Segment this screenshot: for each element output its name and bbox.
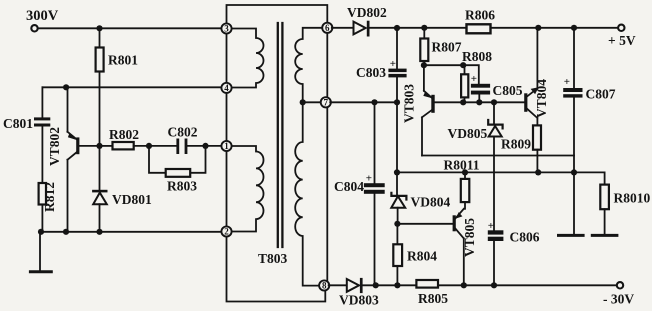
svg-text:+ 5V: + 5V xyxy=(608,33,636,48)
wire VD804 line down from top junction xyxy=(396,102,398,195)
wire C804 top lead xyxy=(374,102,376,183)
winding 3-4 xyxy=(231,29,264,88)
node junction VT802 base / R801 / R802 / VD801 xyxy=(96,143,102,149)
node junction VD805 top on base wire xyxy=(491,99,497,105)
wire R808 top wire xyxy=(424,65,479,84)
wire 300V to transformer pin3 xyxy=(38,27,222,29)
svg-text:R801: R801 xyxy=(108,53,138,68)
node pin 2 xyxy=(221,226,231,236)
svg-text:VD801: VD801 xyxy=(112,192,152,207)
node junction R804 bottom xyxy=(394,282,400,288)
resistor R8010 xyxy=(600,185,609,210)
svg-text:VD802: VD802 xyxy=(347,5,387,20)
transistor VT804 xyxy=(524,28,549,126)
winding 1-2 xyxy=(231,146,264,232)
capacitor C803 xyxy=(388,69,406,73)
node junction R812/ground xyxy=(38,229,44,235)
wire pin8 to VD803 xyxy=(329,284,347,286)
wire C805 bottom lead xyxy=(478,95,480,103)
node junction VD801 bottom xyxy=(96,229,102,235)
transformer core xyxy=(278,23,283,247)
wire -30V rail xyxy=(363,284,617,286)
node junction VT802 emitter xyxy=(63,229,69,235)
capacitor C801 xyxy=(34,117,50,120)
svg-text:R807: R807 xyxy=(432,40,462,55)
wire R812 bottom lead xyxy=(41,205,43,232)
svg-text:1: 1 xyxy=(224,141,229,151)
resistor R802 xyxy=(113,142,134,149)
transistor VT803 xyxy=(402,65,525,155)
node junction C806 bottom xyxy=(491,282,497,288)
wire C803 bottom lead to 7-rail xyxy=(396,77,398,102)
svg-text:+: + xyxy=(488,220,494,232)
ground xyxy=(30,270,51,273)
resistor R803 xyxy=(166,169,191,177)
diode VD801 xyxy=(92,146,152,232)
node pin 8 xyxy=(319,280,329,290)
svg-text:4: 4 xyxy=(224,83,229,93)
node junction C804 bottom xyxy=(373,282,379,288)
node junction R808 top xyxy=(460,62,466,68)
node junction VT802 collector xyxy=(63,84,69,90)
node junction R801 top xyxy=(96,25,102,31)
resistor R812 xyxy=(39,183,46,205)
svg-text:+: + xyxy=(471,73,477,85)
wire bottom-left rail to pin2 xyxy=(40,231,222,233)
resistor R8011 xyxy=(464,172,466,179)
wire R801 top lead xyxy=(99,28,101,47)
svg-text:C801: C801 xyxy=(3,116,33,131)
svg-text:R8011: R8011 xyxy=(444,158,480,173)
svg-text:VD803: VD803 xyxy=(339,293,379,308)
wire VT803 collector horizontal xyxy=(422,155,574,157)
svg-text:VT802: VT802 xyxy=(47,127,62,166)
diode VD803 xyxy=(347,279,359,292)
node pin 6 xyxy=(322,23,332,33)
winding 6-7 xyxy=(295,28,323,103)
wire R801 bottom lead down to base node xyxy=(99,72,101,146)
node -30V output terminal xyxy=(617,282,623,288)
node junction 7-wire end xyxy=(394,99,400,105)
wire C801 bottom lead xyxy=(41,127,43,184)
ground R8010 xyxy=(592,234,617,237)
svg-text:R8010: R8010 xyxy=(614,191,651,206)
wire C803 top lead xyxy=(396,28,398,69)
svg-text:VT803: VT803 xyxy=(402,84,417,123)
resistor R804 xyxy=(393,244,402,266)
wire VD802 to +5V rail xyxy=(370,27,619,29)
svg-text:VT804: VT804 xyxy=(534,79,549,118)
svg-text:- 30V: - 30V xyxy=(603,292,634,307)
svg-text:3: 3 xyxy=(224,24,229,34)
svg-text:+: + xyxy=(564,76,570,88)
svg-text:VD804: VD804 xyxy=(411,195,451,210)
transistor VT802 xyxy=(47,87,100,232)
node junction R803 right xyxy=(202,143,208,149)
svg-text:C803: C803 xyxy=(356,65,386,80)
diode VD804 zener xyxy=(391,193,450,224)
node junction R803 left xyxy=(146,143,152,149)
svg-text:6: 6 xyxy=(325,23,330,33)
svg-text:R803: R803 xyxy=(167,179,197,194)
node pin 1 xyxy=(221,141,231,151)
node junction R807 top xyxy=(421,25,427,31)
resistor R806 xyxy=(467,24,491,33)
wire ground drop xyxy=(39,232,41,271)
wire R802 to C802 xyxy=(134,145,177,147)
capacitor C806 xyxy=(488,230,504,234)
svg-text:300V: 300V xyxy=(26,8,59,24)
node junction R8011 top xyxy=(462,169,468,175)
ground C807 xyxy=(559,234,584,237)
svg-text:8: 8 xyxy=(322,281,327,291)
svg-text:R808: R808 xyxy=(462,49,492,64)
diode VD802 xyxy=(354,22,366,35)
wire R807 bottom to emitter node xyxy=(423,61,425,65)
wire horizontal to pin4 xyxy=(42,86,222,88)
transistor VT805 xyxy=(397,209,477,285)
wire R807 top lead xyxy=(423,28,425,39)
wire C801 top lead xyxy=(41,87,43,117)
svg-text:R802: R802 xyxy=(109,127,139,142)
node junction VT805 base / R804 xyxy=(394,221,400,227)
node junction R807/R808 wire left xyxy=(421,62,427,68)
wire R804 top lead xyxy=(396,224,398,245)
capacitor C805 xyxy=(471,84,490,88)
resistor R807 xyxy=(420,39,428,62)
wire pin6 to VD802 xyxy=(332,27,354,29)
wire R803 branch xyxy=(149,146,206,173)
node pin 4 xyxy=(221,83,231,93)
capacitor C804 xyxy=(364,183,385,187)
svg-text:VD805: VD805 xyxy=(448,126,488,141)
node junction C805 bottom on base wire xyxy=(476,99,482,105)
node junction rail left end xyxy=(394,169,400,175)
resistor R809 xyxy=(533,125,541,149)
svg-text:VT805: VT805 xyxy=(462,218,477,257)
wire pin7 to junction xyxy=(330,101,397,103)
diode VD805 zener xyxy=(448,102,503,230)
wire C806 bottom lead xyxy=(493,241,495,285)
winding 7-8 xyxy=(295,102,320,285)
node junction C804 branch xyxy=(371,99,377,105)
node junction R808 bottom on base wire xyxy=(460,99,466,105)
svg-text:C804: C804 xyxy=(334,179,364,194)
node junction C803 top xyxy=(394,25,400,31)
node junction VT804 collector xyxy=(535,25,541,31)
node junction VT805 emitter xyxy=(461,282,467,288)
wire R809 bottom lead xyxy=(536,150,538,173)
wire C802 to pin1 xyxy=(187,145,222,147)
wire C807 bottom lead to ground xyxy=(573,98,575,236)
resistor R805 xyxy=(416,280,438,288)
transformer T803 shield frame xyxy=(227,5,328,302)
svg-text:2: 2 xyxy=(224,227,229,237)
svg-text:C807: C807 xyxy=(586,87,616,102)
wire R8010 bottom lead xyxy=(604,209,606,235)
svg-text:C805: C805 xyxy=(493,83,523,98)
wire base node to R802 xyxy=(100,145,113,147)
resistor R801 xyxy=(96,48,104,72)
wire R8011 rail xyxy=(397,172,605,184)
svg-text:R812: R812 xyxy=(42,182,57,212)
capacitor C802 xyxy=(176,139,179,155)
node junction C807 top xyxy=(571,25,577,31)
svg-text:R809: R809 xyxy=(501,137,531,152)
svg-text:T803: T803 xyxy=(258,251,288,266)
node winding center tap junction xyxy=(300,99,306,105)
node junction R809 bottom xyxy=(535,169,541,175)
node junction C807 line crossing xyxy=(571,169,577,175)
svg-text:R806: R806 xyxy=(465,8,495,23)
svg-text:R804: R804 xyxy=(407,249,437,264)
wire C804 bottom lead xyxy=(374,194,376,285)
node pin 3 xyxy=(221,23,231,33)
svg-text:+: + xyxy=(366,173,372,185)
resistor R808 xyxy=(464,65,466,74)
svg-text:+: + xyxy=(390,58,396,70)
wire R804 bottom lead xyxy=(396,266,398,285)
capacitor C807 xyxy=(573,28,575,88)
node +5V output terminal xyxy=(618,25,624,31)
svg-text:C802: C802 xyxy=(168,125,198,140)
svg-text:7: 7 xyxy=(324,98,329,108)
node 300V input terminal xyxy=(31,25,37,31)
svg-text:R805: R805 xyxy=(418,291,448,306)
node pin 7 xyxy=(321,97,331,107)
svg-text:C806: C806 xyxy=(510,230,540,245)
